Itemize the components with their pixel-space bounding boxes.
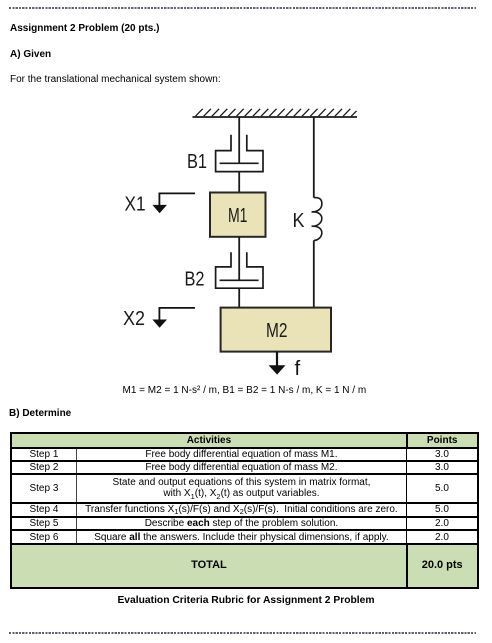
svg-text:B1: B1 [187, 151, 207, 173]
title text [10, 23, 159, 34]
wire: mass M1 to damper B2 piston rod [238, 237, 240, 280]
displacement arrow X1 [152, 193, 195, 213]
intro line [10, 74, 221, 85]
damper B1 cylinder [216, 135, 263, 172]
damper B1 piston plate [220, 162, 259, 164]
section A heading [10, 49, 51, 60]
svg-text:f: f [295, 357, 301, 380]
spring K: wire from ceiling [313, 117, 315, 198]
mass M2 [221, 308, 331, 352]
top dashed separator [9, 7, 476, 9]
svg-text:X1: X1 [125, 194, 146, 216]
caption [0, 595, 492, 606]
section B heading [9, 408, 71, 419]
svg-text:M2: M2 [266, 320, 288, 342]
displacement arrow X2 [152, 308, 195, 328]
parameter values line [123, 385, 367, 396]
spring K coil [312, 198, 322, 241]
damper B2 piston plate [220, 279, 259, 281]
wire: damper B2 to mass M2 [238, 288, 240, 307]
force arrow f [269, 352, 286, 375]
ceiling hatching [196, 109, 357, 116]
ceiling support (fixed frame) [193, 116, 358, 118]
bottom dashed separator [9, 632, 476, 634]
mass M1 [210, 193, 266, 237]
svg-text:M1: M1 [228, 205, 248, 227]
svg-text:K: K [293, 210, 306, 232]
wire: ceiling to damper B1 piston rod [238, 117, 240, 163]
svg-text:X2: X2 [123, 308, 145, 330]
damper B2 cylinder [216, 252, 263, 288]
rubric table [10, 432, 479, 589]
wire: damper B1 to mass M1 [238, 172, 240, 193]
spring K: wire to mass M2 [313, 240, 315, 307]
svg-text:B2: B2 [185, 269, 205, 291]
